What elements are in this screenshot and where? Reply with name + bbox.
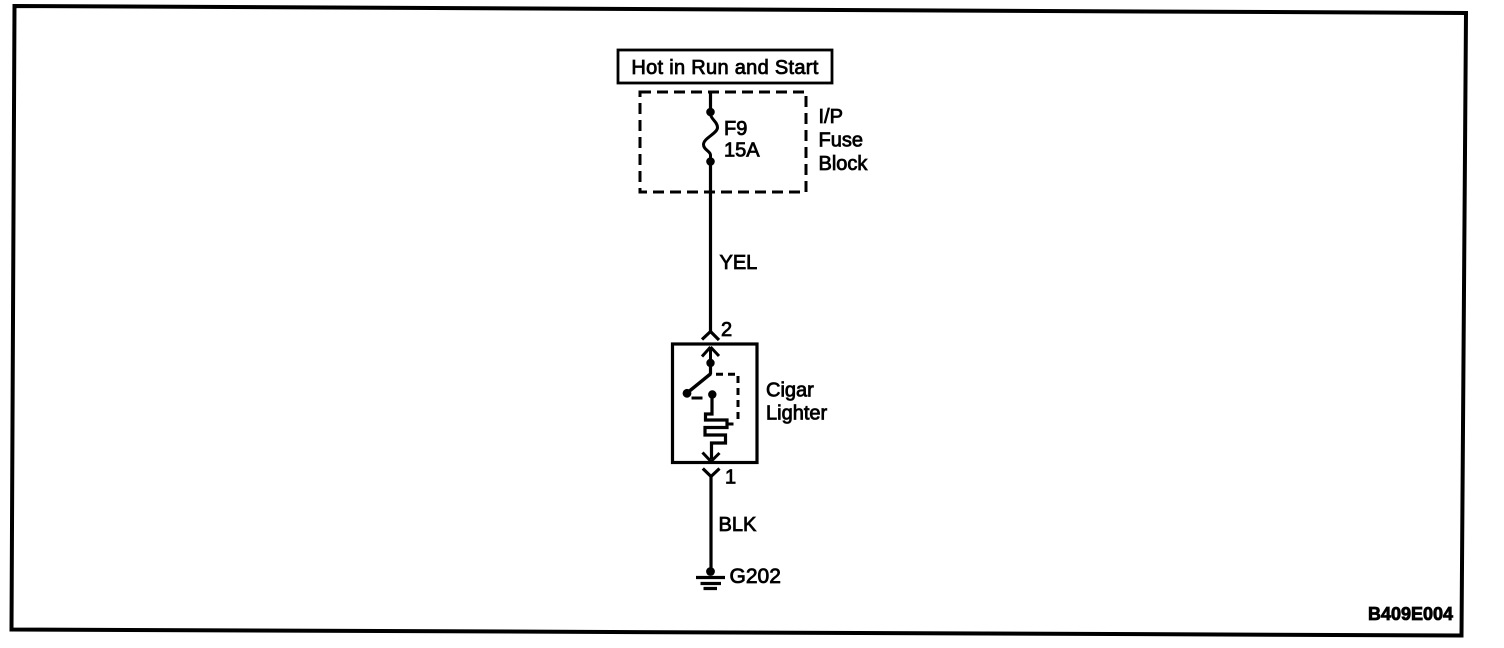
wire (feed into fuse) bbox=[709, 91, 712, 109]
heating element bbox=[705, 396, 727, 459]
svg-text:Cigar: Cigar bbox=[766, 379, 814, 401]
fuse F9 bottom terminal dot bbox=[706, 157, 715, 166]
svg-text:15A: 15A bbox=[724, 140, 760, 162]
element top dot bbox=[708, 390, 716, 398]
switch stub bbox=[709, 363, 712, 374]
connector terminal 1 (female Y) bbox=[703, 469, 720, 477]
connector terminal 2 (female) bbox=[702, 332, 719, 341]
svg-text:B409E004: B409E004 bbox=[1368, 604, 1453, 624]
linkage dashes (horizontal) bbox=[716, 373, 740, 376]
power feed box "Hot in Run and Start" bbox=[618, 50, 832, 83]
svg-text:Lighter: Lighter bbox=[766, 403, 827, 425]
svg-text:F9: F9 bbox=[724, 118, 747, 140]
svg-text:2: 2 bbox=[721, 319, 732, 341]
cigar lighter case bbox=[673, 344, 758, 463]
linkage tick bbox=[727, 423, 734, 426]
linkage dashes (vertical) bbox=[737, 376, 740, 423]
I/P fuse block (dashed box) bbox=[640, 92, 806, 192]
ground G202 symbol bbox=[696, 578, 725, 589]
svg-text:G202: G202 bbox=[730, 565, 781, 588]
fuse F9 element bbox=[704, 114, 718, 159]
pin 1 male arrow (inside case) bbox=[703, 453, 720, 462]
ground junction dot bbox=[706, 567, 715, 576]
svg-text:I/P: I/P bbox=[819, 106, 843, 128]
fuse F9 top terminal dot bbox=[706, 108, 715, 117]
wire YEL (fuse to cigar lighter) bbox=[709, 162, 712, 332]
svg-text:Fuse: Fuse bbox=[819, 129, 863, 151]
switch contact dot (left) bbox=[683, 389, 692, 398]
switch blade bbox=[687, 374, 711, 394]
svg-text:BLK: BLK bbox=[719, 514, 757, 536]
switch common dot bbox=[706, 359, 714, 367]
svg-text:Hot in Run and Start: Hot in Run and Start bbox=[631, 57, 818, 79]
svg-text:1: 1 bbox=[725, 467, 736, 489]
pin 2 male arrow (inside case) bbox=[702, 347, 719, 362]
svg-text:Block: Block bbox=[819, 153, 869, 175]
wire BLK (to ground) bbox=[709, 476, 712, 571]
svg-text:YEL: YEL bbox=[720, 252, 758, 274]
linkage dashes (to contact) bbox=[692, 397, 703, 400]
